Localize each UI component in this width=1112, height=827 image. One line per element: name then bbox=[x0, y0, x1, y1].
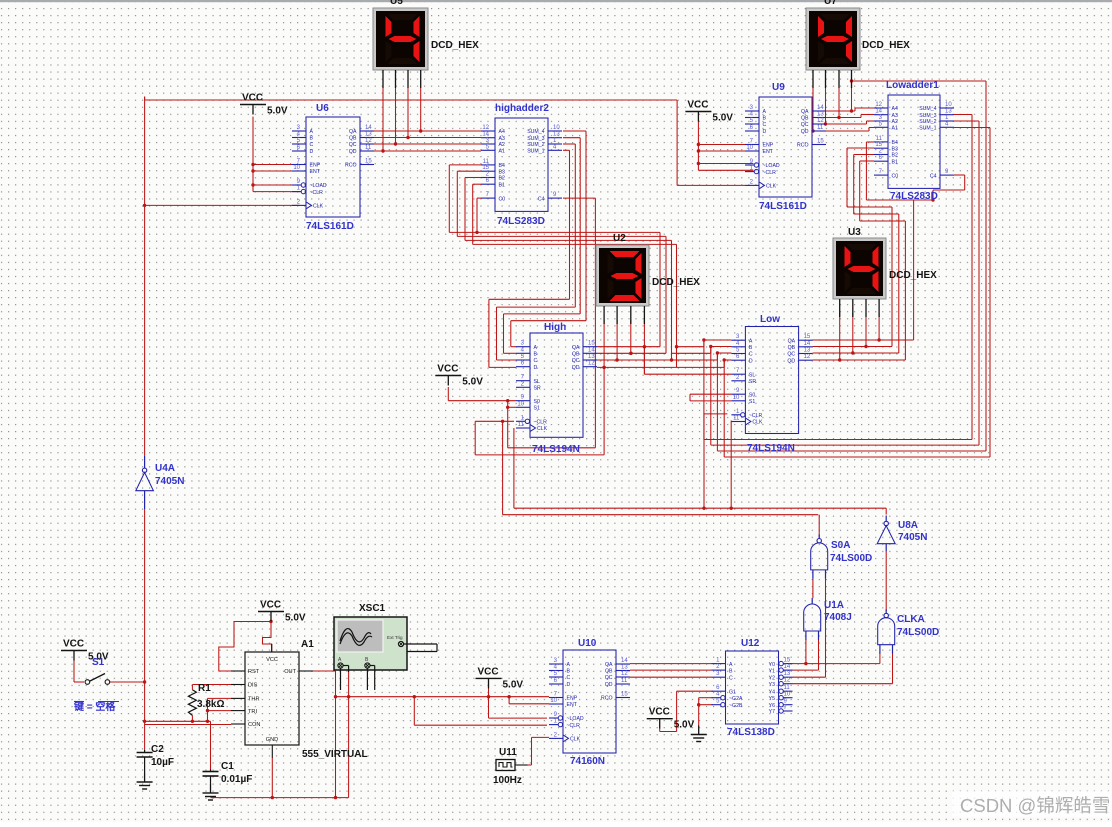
svg-text:74LS194N: 74LS194N bbox=[747, 443, 795, 454]
wire Low QA-QD feedback staircase to Lowadder1 B inputs bbox=[813, 142, 933, 342]
wire bottom node horizontals bbox=[143, 720, 231, 725]
svg-text:B1: B1 bbox=[892, 159, 898, 165]
svg-text:VCC: VCC bbox=[260, 600, 281, 611]
svg-text:G1: G1 bbox=[729, 689, 736, 695]
svg-text:Y1: Y1 bbox=[769, 668, 775, 674]
wire U10 nCLR feed bbox=[414, 697, 547, 726]
svg-text:A3: A3 bbox=[499, 136, 505, 142]
svg-text:~LOAD: ~LOAD bbox=[310, 183, 327, 189]
adder highadder2 74LS283D bbox=[481, 103, 562, 227]
svg-text:QC: QC bbox=[605, 675, 613, 681]
wire VCC U12 to G1 bbox=[660, 691, 713, 731]
svg-text:C0: C0 bbox=[892, 173, 899, 179]
svg-text:15: 15 bbox=[804, 334, 811, 340]
svg-text:12: 12 bbox=[804, 354, 811, 360]
svg-text:CLK: CLK bbox=[313, 204, 324, 210]
power VCC U12 bbox=[647, 707, 695, 731]
svg-text:15: 15 bbox=[817, 139, 824, 145]
svg-text:U11: U11 bbox=[499, 747, 517, 758]
svg-text:QA: QA bbox=[801, 109, 809, 115]
svg-text:SUM_2: SUM_2 bbox=[527, 142, 544, 148]
svg-text:R1: R1 bbox=[198, 683, 211, 694]
and U1A 7408J bbox=[804, 598, 821, 640]
ground C1 bbox=[203, 784, 219, 800]
svg-text:B2: B2 bbox=[499, 176, 505, 182]
wire THR/TRI node bbox=[206, 698, 231, 723]
inverter U4A 7405N bbox=[136, 456, 185, 509]
svg-text:5.0V: 5.0V bbox=[674, 720, 695, 731]
svg-text:Y6: Y6 bbox=[769, 703, 775, 709]
svg-text:D: D bbox=[534, 365, 538, 371]
svg-text:10µF: 10µF bbox=[151, 757, 174, 768]
svg-text:U5: U5 bbox=[390, 0, 403, 7]
power VCC S1 bbox=[61, 639, 109, 663]
svg-text:TRI: TRI bbox=[248, 709, 257, 715]
svg-text:14: 14 bbox=[621, 658, 628, 664]
svg-text:B: B bbox=[310, 136, 314, 142]
svg-text:S1: S1 bbox=[534, 406, 540, 412]
svg-text:15: 15 bbox=[621, 692, 628, 698]
svg-text:U6: U6 bbox=[316, 103, 329, 114]
svg-text:12: 12 bbox=[817, 118, 824, 124]
svg-text:U2: U2 bbox=[613, 233, 626, 244]
svg-text:A4: A4 bbox=[892, 106, 898, 112]
svg-text:U12: U12 bbox=[741, 638, 760, 649]
svg-text:CLK: CLK bbox=[570, 737, 581, 743]
register Low 74LS194N bbox=[731, 314, 812, 454]
svg-text:12: 12 bbox=[482, 125, 489, 131]
wire highadder2 C4 down bbox=[508, 198, 596, 448]
label key = space bbox=[73, 700, 119, 713]
svg-text:C: C bbox=[534, 358, 538, 364]
svg-text:U7: U7 bbox=[824, 0, 837, 7]
wire Lowadder1 C4 bbox=[931, 175, 964, 202]
svg-text:VCC: VCC bbox=[242, 93, 263, 104]
svg-text:11: 11 bbox=[876, 136, 883, 142]
svg-text:CLK: CLK bbox=[752, 420, 763, 426]
svg-text:11: 11 bbox=[733, 416, 740, 422]
svg-text:QA: QA bbox=[349, 129, 357, 135]
svg-text:A1: A1 bbox=[301, 639, 314, 650]
svg-text:SUM_1: SUM_1 bbox=[527, 149, 544, 155]
svg-text:~G2B: ~G2B bbox=[729, 703, 743, 709]
display U2 DCD_HEX bbox=[596, 233, 700, 324]
power VCC 555 bbox=[258, 600, 306, 624]
svg-text:15: 15 bbox=[875, 142, 882, 148]
wire High QB feedback to highadder2 B3 bbox=[457, 171, 666, 355]
svg-text:SUM_3: SUM_3 bbox=[919, 113, 936, 119]
svg-text:5.0V: 5.0V bbox=[712, 113, 733, 124]
svg-text:U8A: U8A bbox=[898, 520, 918, 531]
svg-text:A: A bbox=[729, 662, 733, 668]
wire VCC U9 to ENP/ENT/LOAD/CLR bbox=[697, 122, 754, 171]
svg-text:13: 13 bbox=[817, 112, 824, 118]
svg-text:VCC: VCC bbox=[649, 707, 670, 718]
svg-text:ENT: ENT bbox=[763, 149, 774, 155]
svg-text:A: A bbox=[763, 109, 767, 115]
svg-text:15: 15 bbox=[784, 658, 791, 664]
svg-text:74LS283D: 74LS283D bbox=[890, 191, 938, 202]
counter U9 74LS161D bbox=[745, 82, 826, 212]
wire High QD feedback to highadder2 B1 bbox=[473, 184, 677, 369]
wire highadder2 SUM_4 staircase to High A bbox=[511, 131, 586, 347]
svg-text:ENT: ENT bbox=[567, 702, 578, 708]
svg-text:CSDN @锦辉皓雪: CSDN @锦辉皓雪 bbox=[960, 795, 1110, 816]
wire S0A output up bbox=[818, 515, 820, 537]
svg-text:VCC: VCC bbox=[266, 657, 278, 663]
svg-text:14: 14 bbox=[365, 125, 372, 131]
svg-text:~CLR: ~CLR bbox=[534, 420, 548, 426]
svg-text:74LS00D: 74LS00D bbox=[830, 553, 872, 564]
svg-text:7405N: 7405N bbox=[898, 532, 927, 543]
svg-text:QD: QD bbox=[349, 149, 357, 155]
svg-text:ENP: ENP bbox=[763, 143, 774, 149]
wire display U7 pin drops to U9 QA-QD rows bbox=[811, 78, 853, 133]
svg-text:highadder2: highadder2 bbox=[495, 103, 549, 114]
svg-text:555_VIRTUAL: 555_VIRTUAL bbox=[302, 749, 368, 760]
svg-text:Y3: Y3 bbox=[769, 682, 775, 688]
svg-text:SL: SL bbox=[534, 379, 540, 385]
wire U1A output to S0A input bbox=[812, 579, 814, 598]
display U5 DCD_HEX bbox=[373, 0, 479, 88]
svg-text:QD: QD bbox=[605, 682, 613, 688]
svg-text:C4: C4 bbox=[930, 173, 937, 179]
svg-text:14: 14 bbox=[817, 105, 824, 111]
svg-text:5.0V: 5.0V bbox=[503, 679, 524, 690]
wire Low S0/S1 ties bbox=[690, 394, 731, 401]
svg-text:74LS161D: 74LS161D bbox=[759, 201, 807, 212]
wire 555 GND drop bbox=[271, 758, 273, 798]
wire U6 QA-QD rows to display U5 and highadder2 A inputs bbox=[374, 129, 481, 152]
svg-text:SL: SL bbox=[749, 372, 755, 378]
svg-text:DCD_HEX: DCD_HEX bbox=[889, 270, 937, 281]
wire 555 RST loop bbox=[219, 620, 273, 671]
svg-text:~CLR: ~CLR bbox=[749, 413, 763, 419]
svg-text:5.0V: 5.0V bbox=[285, 613, 306, 624]
wire VCC High to S0/S1 bbox=[448, 387, 516, 448]
wire Lowadder1 SUM_4 loop via top right margin bbox=[716, 79, 986, 451]
svg-text:OUT: OUT bbox=[284, 669, 296, 675]
svg-text:SUM_4: SUM_4 bbox=[919, 106, 936, 112]
svg-text:11: 11 bbox=[784, 685, 791, 691]
svg-text:11: 11 bbox=[518, 422, 525, 428]
svg-text:A: A bbox=[310, 129, 314, 135]
svg-text:Low: Low bbox=[760, 314, 780, 325]
wire R1 top to 555 DIS bbox=[192, 685, 231, 690]
wire High nCLR net from S0A output bbox=[475, 366, 818, 515]
svg-text:13: 13 bbox=[588, 354, 595, 360]
svg-text:10: 10 bbox=[553, 125, 560, 131]
svg-text:B: B bbox=[567, 669, 571, 675]
svg-text:74160N: 74160N bbox=[570, 756, 605, 767]
wire 555 VCC feed bbox=[263, 622, 272, 653]
svg-text:15: 15 bbox=[482, 165, 489, 171]
svg-text:74LS283D: 74LS283D bbox=[497, 216, 545, 227]
wire U9 QA-QD rows staircase to Lowadder1 A inputs bbox=[813, 108, 874, 131]
svg-text:0.01µF: 0.01µF bbox=[221, 774, 252, 785]
counter U6 74LS161D bbox=[292, 103, 374, 232]
svg-text:C0: C0 bbox=[499, 196, 506, 202]
svg-text:~LOAD: ~LOAD bbox=[763, 163, 780, 169]
svg-text:14: 14 bbox=[588, 347, 595, 353]
svg-text:11: 11 bbox=[817, 125, 824, 131]
svg-text:RCO: RCO bbox=[601, 696, 613, 702]
svg-text:13: 13 bbox=[945, 109, 952, 115]
svg-text:SR: SR bbox=[534, 386, 541, 392]
wire High QA feedback to highadder2 B4 bbox=[449, 165, 660, 349]
wire High QA-QD rows to Low A-D inputs bbox=[670, 340, 732, 367]
svg-text:S0: S0 bbox=[534, 399, 540, 405]
svg-text:Y4: Y4 bbox=[769, 689, 775, 695]
svg-text:~G2A: ~G2A bbox=[729, 696, 743, 702]
svg-text:74LS00D: 74LS00D bbox=[897, 627, 939, 638]
svg-text:RCO: RCO bbox=[345, 163, 357, 169]
svg-text:THR: THR bbox=[248, 697, 260, 703]
svg-text:12: 12 bbox=[875, 102, 882, 108]
wire CLKA output to U8A input bbox=[885, 552, 887, 611]
svg-text:11: 11 bbox=[483, 159, 490, 165]
svg-text:10: 10 bbox=[517, 401, 524, 407]
decoder U12 74LS138D bbox=[712, 638, 793, 738]
svg-text:13: 13 bbox=[784, 671, 791, 677]
svg-text:ENP: ENP bbox=[567, 696, 578, 702]
wire C2 top bbox=[144, 725, 146, 751]
svg-text:Y0: Y0 bbox=[769, 662, 775, 668]
svg-text:10: 10 bbox=[784, 692, 791, 698]
svg-text:QB: QB bbox=[801, 116, 809, 122]
power VCC High bbox=[435, 364, 483, 388]
svg-text:ENP: ENP bbox=[310, 163, 321, 169]
wire Low nCLR bbox=[702, 414, 727, 510]
svg-text:QB: QB bbox=[788, 345, 796, 351]
svg-text:DIS: DIS bbox=[248, 683, 258, 689]
svg-text:~CLR: ~CLR bbox=[567, 723, 581, 729]
svg-text:A1: A1 bbox=[892, 126, 898, 132]
svg-text:14: 14 bbox=[784, 664, 791, 670]
svg-text:QC: QC bbox=[787, 352, 795, 358]
svg-text:VCC: VCC bbox=[687, 100, 708, 111]
svg-text:QB: QB bbox=[605, 669, 613, 675]
svg-text:~CLR: ~CLR bbox=[310, 190, 324, 196]
svg-text:A: A bbox=[749, 338, 753, 344]
svg-text:7405N: 7405N bbox=[155, 476, 184, 487]
svg-text:12: 12 bbox=[784, 678, 791, 684]
svg-text:GND: GND bbox=[266, 737, 278, 743]
svg-text:C: C bbox=[763, 122, 767, 128]
svg-text:QB: QB bbox=[349, 136, 357, 142]
svg-text:QA: QA bbox=[605, 662, 613, 668]
svg-text:U4A: U4A bbox=[155, 463, 175, 474]
adder Lowadder1 74LS283D bbox=[874, 80, 954, 202]
svg-text:SR: SR bbox=[749, 379, 756, 385]
capacitor C2 10uF bbox=[137, 744, 174, 773]
svg-text:12: 12 bbox=[621, 671, 628, 677]
svg-text:5.0V: 5.0V bbox=[267, 106, 288, 117]
svg-text:QA: QA bbox=[572, 345, 580, 351]
wire highadder2 SUM_2 staircase to High C bbox=[497, 144, 576, 360]
svg-text:14: 14 bbox=[875, 109, 882, 115]
svg-text:12: 12 bbox=[365, 138, 372, 144]
svg-text:CLK: CLK bbox=[537, 426, 548, 432]
svg-text:10: 10 bbox=[293, 165, 300, 171]
resistor R1 3.8k bbox=[188, 683, 224, 715]
svg-text:QC: QC bbox=[349, 142, 357, 148]
wire S1/U4A clock trunk vertical bbox=[144, 97, 146, 725]
svg-text:~LOAD: ~LOAD bbox=[567, 716, 584, 722]
svg-text:B: B bbox=[749, 345, 753, 351]
inverter U8A 7405N bbox=[877, 516, 895, 552]
svg-text:3.8kΩ: 3.8kΩ bbox=[197, 699, 224, 710]
oscilloscope XSC1 bbox=[334, 603, 437, 690]
svg-text:11: 11 bbox=[365, 145, 372, 151]
svg-text:74LS194N: 74LS194N bbox=[532, 444, 580, 455]
svg-text:12: 12 bbox=[588, 361, 595, 367]
nand CLKA 74LS00D bbox=[878, 609, 895, 653]
wire U12 Y1 to U1A bbox=[792, 640, 818, 671]
svg-text:7408J: 7408J bbox=[824, 612, 852, 623]
wire High QC feedback to highadder2 B2 bbox=[465, 178, 672, 362]
svg-text:QC: QC bbox=[572, 358, 580, 364]
svg-text:10: 10 bbox=[550, 698, 557, 704]
svg-text:A1: A1 bbox=[499, 149, 505, 155]
svg-text:D: D bbox=[763, 129, 767, 135]
switch S1 key=space bbox=[85, 657, 110, 684]
wire clock trunk top horizontal to U9 CLK bbox=[145, 97, 745, 186]
svg-text:VCC: VCC bbox=[63, 639, 84, 650]
svg-text:C: C bbox=[749, 352, 753, 358]
svg-text:U1A: U1A bbox=[824, 600, 844, 611]
wire ground bus bottom bbox=[211, 796, 349, 799]
svg-text:S1: S1 bbox=[749, 399, 755, 405]
svg-text:100Hz: 100Hz bbox=[493, 775, 522, 786]
svg-text:14: 14 bbox=[482, 132, 489, 138]
wire VCC S1 drop bbox=[74, 661, 84, 683]
ground U12 bbox=[691, 726, 707, 742]
svg-text:B: B bbox=[534, 352, 538, 358]
svg-text:74LS161D: 74LS161D bbox=[306, 221, 354, 232]
svg-text:14: 14 bbox=[804, 341, 811, 347]
wire VCC U10 to nLOAD bbox=[489, 688, 548, 718]
watermark CSDN bbox=[952, 791, 1112, 817]
svg-text:10: 10 bbox=[733, 395, 740, 401]
svg-text:Y5: Y5 bbox=[769, 696, 775, 702]
svg-text:QB: QB bbox=[572, 352, 580, 358]
svg-text:C: C bbox=[310, 142, 314, 148]
svg-text:B: B bbox=[729, 668, 733, 674]
svg-text:74LS138D: 74LS138D bbox=[727, 727, 775, 738]
svg-text:S1: S1 bbox=[92, 657, 105, 668]
svg-text:C2: C2 bbox=[151, 744, 164, 755]
nand S0A 74LS00D bbox=[811, 535, 828, 579]
svg-text:RST: RST bbox=[248, 669, 260, 675]
wire C1 top bbox=[210, 721, 212, 769]
svg-text:QA: QA bbox=[788, 338, 796, 344]
svg-text:D: D bbox=[567, 682, 571, 688]
wire VCC to U6 ENP/ENT/LOAD/CLR bbox=[251, 117, 300, 192]
register High 74LS194N bbox=[516, 322, 597, 455]
wire scope A probe drop bbox=[348, 672, 350, 798]
wire Low SL from High QA row bbox=[644, 347, 731, 375]
svg-text:SUM_2: SUM_2 bbox=[919, 119, 936, 125]
wire highadder2 SUM_1 staircase to High D bbox=[489, 150, 570, 367]
wire Lowadder1 SUM_3 loop to Low via right margin bbox=[702, 115, 972, 440]
wire U10 QA/QB/QC to U12 A/B/C bbox=[630, 664, 712, 678]
svg-text:U10: U10 bbox=[578, 638, 597, 649]
svg-text:A2: A2 bbox=[499, 142, 505, 148]
svg-text:B: B bbox=[763, 116, 767, 122]
svg-text:15: 15 bbox=[365, 159, 372, 165]
svg-text:U3: U3 bbox=[848, 227, 861, 238]
svg-text:A: A bbox=[567, 662, 571, 668]
svg-text:B3: B3 bbox=[499, 169, 505, 175]
display U7 DCD_HEX bbox=[806, 0, 910, 88]
svg-text:A3: A3 bbox=[892, 113, 898, 119]
svg-text:A: A bbox=[534, 345, 538, 351]
power VCC U9 bbox=[685, 100, 733, 124]
wire U12 Y3 to CLKA bbox=[792, 653, 892, 684]
svg-text:C4: C4 bbox=[538, 196, 545, 202]
svg-text:RCO: RCO bbox=[797, 143, 809, 149]
svg-text:13: 13 bbox=[804, 348, 811, 354]
svg-text:CON: CON bbox=[248, 722, 260, 728]
power VCC U6 bbox=[240, 93, 288, 117]
svg-text:C: C bbox=[729, 675, 733, 681]
svg-text:ENT: ENT bbox=[310, 169, 321, 175]
wire U12 Y2 to S0A bbox=[792, 579, 825, 677]
ground C2 bbox=[137, 773, 153, 789]
wire U10 ENT feed bbox=[509, 697, 549, 704]
counter U10 74160N bbox=[549, 638, 630, 767]
wire U12 Y0 to U1A and CLKA bbox=[792, 640, 880, 666]
svg-text:CLK: CLK bbox=[766, 184, 777, 190]
svg-text:SUM_1: SUM_1 bbox=[919, 126, 936, 132]
wire U8A output up bbox=[885, 508, 887, 514]
clock source U11 100Hz bbox=[493, 747, 528, 786]
svg-text:B3: B3 bbox=[892, 146, 898, 152]
svg-text:13: 13 bbox=[553, 132, 560, 138]
wire U11 to U10 CLK bbox=[528, 737, 550, 765]
svg-text:QD: QD bbox=[572, 365, 580, 371]
svg-text:B2: B2 bbox=[892, 153, 898, 159]
svg-text:S0A: S0A bbox=[831, 540, 850, 551]
wire Lowadder1 SUM_2 loop to Low via right margin bbox=[709, 121, 979, 445]
wire highadder2 C0 tap bbox=[475, 198, 481, 234]
svg-text:B1: B1 bbox=[499, 182, 505, 188]
svg-text:11: 11 bbox=[621, 678, 628, 684]
svg-text:QC: QC bbox=[801, 122, 809, 128]
capacitor C1 0.01uF bbox=[203, 761, 253, 785]
wire U12 G2A/G2B to ground bbox=[697, 698, 713, 726]
wire S1 to trunk bbox=[110, 680, 146, 683]
wire Lowadder1 SUM_1 loop to Low via right margin bbox=[723, 128, 991, 458]
svg-text:10: 10 bbox=[945, 102, 952, 108]
wire highadder2 SUM_3 staircase to High B bbox=[504, 138, 581, 354]
svg-text:High: High bbox=[544, 322, 566, 333]
svg-text:U9: U9 bbox=[772, 82, 785, 93]
wire display U3 pin drops bbox=[840, 313, 879, 360]
svg-text:A4: A4 bbox=[499, 129, 505, 135]
svg-text:B4: B4 bbox=[499, 163, 505, 169]
wire 555 OUT to scope/U10 trunk bbox=[313, 671, 549, 798]
svg-text:D: D bbox=[310, 149, 314, 155]
svg-text:VCC: VCC bbox=[437, 364, 458, 375]
svg-text:13: 13 bbox=[621, 665, 628, 671]
svg-text:Y2: Y2 bbox=[769, 675, 775, 681]
wire U6 CLK from trunk bbox=[143, 204, 299, 207]
svg-text:~CLR: ~CLR bbox=[763, 170, 777, 176]
wire display U5 pin drops bbox=[383, 88, 421, 151]
svg-text:Y7: Y7 bbox=[769, 709, 775, 715]
